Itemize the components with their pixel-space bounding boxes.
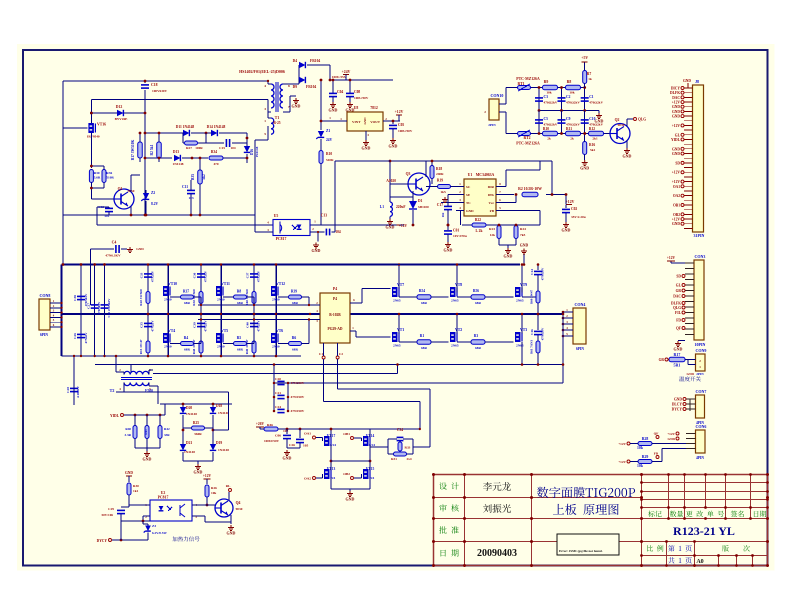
- svg-text:C40: C40: [246, 322, 250, 328]
- svg-text:R28 3W560: R28 3W560: [139, 289, 143, 306]
- svg-text:Z3: Z3: [152, 524, 156, 528]
- svg-text:100R: 100R: [195, 146, 203, 150]
- svg-text:GND: GND: [674, 398, 682, 402]
- svg-text:GND: GND: [312, 248, 321, 253]
- svg-text:+12V: +12V: [399, 224, 408, 228]
- svg-text:2N65: 2N65: [451, 344, 459, 348]
- svg-text:1N4148: 1N4148: [173, 162, 184, 166]
- svg-text:4PIN: 4PIN: [696, 456, 704, 460]
- svg-text:3: 3: [264, 107, 266, 111]
- svg-text:QF: QF: [676, 327, 682, 331]
- svg-text:2N65: 2N65: [451, 299, 459, 303]
- svg-text:SD: SD: [676, 275, 681, 279]
- svg-text:OA1: OA1: [304, 432, 311, 436]
- svg-text:C2: C2: [566, 95, 571, 99]
- svg-text:104: 104: [335, 230, 341, 234]
- svg-text:R34: R34: [211, 150, 217, 154]
- svg-text:C30: C30: [73, 295, 77, 301]
- svg-text:RL: RL: [226, 484, 231, 488]
- svg-text:1N4148: 1N4148: [186, 412, 197, 416]
- svg-text:+12V: +12V: [395, 110, 404, 114]
- svg-text:68R: 68R: [475, 346, 481, 350]
- svg-text:47N2kV: 47N2kV: [204, 270, 208, 282]
- svg-text:C5: C5: [544, 117, 549, 121]
- svg-text:10k: 10k: [637, 464, 644, 468]
- svg-text:47N250V: 47N250V: [291, 395, 305, 399]
- svg-text:510R: 510R: [106, 176, 114, 180]
- svg-text:C39: C39: [193, 322, 197, 328]
- svg-text:C28: C28: [66, 387, 70, 393]
- svg-text:68R: 68R: [184, 348, 190, 352]
- svg-text:470N63V: 470N63V: [97, 301, 101, 314]
- svg-text:510R: 510R: [326, 158, 334, 162]
- svg-text:GND: GND: [667, 437, 675, 441]
- svg-text:2: 2: [484, 110, 486, 114]
- svg-text:R41: R41: [144, 429, 148, 435]
- svg-text:7k5: 7k5: [520, 233, 526, 237]
- svg-text:FB: FB: [490, 209, 495, 213]
- svg-text:CON3: CON3: [695, 254, 706, 259]
- svg-text:VT8: VT8: [455, 283, 462, 287]
- svg-text:R27: R27: [186, 146, 192, 150]
- svg-text:2N65: 2N65: [393, 299, 401, 303]
- svg-text:R18: R18: [436, 167, 442, 171]
- svg-text:C9: C9: [566, 117, 571, 121]
- svg-text:R8: R8: [237, 290, 242, 294]
- svg-text:C37: C37: [246, 272, 250, 278]
- svg-text:+12V: +12V: [618, 460, 626, 464]
- svg-text:240R: 240R: [436, 172, 444, 176]
- svg-text:YIDL: YIDL: [110, 414, 120, 418]
- svg-text:470: 470: [213, 162, 218, 166]
- svg-text:SE: SE: [466, 193, 471, 197]
- svg-text:DAC: DAC: [672, 96, 680, 100]
- svg-text:68R: 68R: [184, 301, 190, 305]
- svg-text:GND: GND: [672, 115, 680, 119]
- svg-text:Q1: Q1: [118, 187, 123, 191]
- svg-text:R12: R12: [589, 127, 595, 131]
- svg-text:QLG: QLG: [673, 306, 681, 310]
- svg-text:35V/2.20u: 35V/2.20u: [571, 215, 586, 219]
- svg-text:+12V: +12V: [672, 101, 681, 105]
- svg-text:6PIN: 6PIN: [40, 333, 48, 337]
- svg-text:2N60: 2N60: [217, 298, 225, 302]
- svg-text:PTC-MZ126A: PTC-MZ126A: [516, 77, 540, 81]
- svg-text:R54: R54: [419, 289, 425, 293]
- svg-text:47N2kV: 47N2kV: [204, 320, 208, 332]
- svg-text:J8: J8: [695, 79, 699, 84]
- svg-text:U2: U2: [161, 491, 166, 495]
- svg-text:GND: GND: [329, 108, 338, 113]
- svg-text:105: 105: [303, 444, 309, 448]
- svg-text:5k1: 5k1: [590, 148, 596, 152]
- svg-text:GND: GND: [136, 247, 144, 251]
- svg-text:C15: C15: [219, 146, 225, 150]
- svg-text:+12V: +12V: [672, 180, 681, 184]
- svg-text:Z2: Z2: [151, 191, 155, 195]
- svg-text:2k: 2k: [547, 137, 551, 141]
- svg-text:GND: GND: [520, 244, 529, 248]
- svg-text:R6: R6: [292, 336, 297, 340]
- svg-text:102: 102: [441, 212, 445, 217]
- svg-text:T2: T2: [110, 388, 115, 393]
- svg-text:R5: R5: [237, 336, 242, 340]
- svg-text:DYCY: DYCY: [97, 539, 108, 543]
- svg-text:OA1: OA1: [673, 185, 680, 189]
- svg-text:R42: R42: [164, 427, 170, 431]
- svg-text:8: 8: [288, 84, 290, 88]
- svg-text:GND: GND: [672, 110, 680, 114]
- svg-text:D14 1N4148: D14 1N4148: [207, 125, 226, 129]
- svg-text:R7: R7: [587, 72, 592, 76]
- svg-text:68R: 68R: [292, 348, 298, 352]
- svg-text:2N60: 2N60: [217, 345, 225, 349]
- svg-text:470Ω2kV: 470Ω2kV: [544, 101, 558, 105]
- svg-text:C34: C34: [397, 428, 403, 432]
- svg-text:C33: C33: [140, 272, 144, 278]
- svg-text:R36: R36: [106, 171, 112, 175]
- svg-text:A102KV: A102KV: [76, 385, 80, 398]
- svg-text:VT9: VT9: [520, 283, 527, 287]
- svg-text:R35: R35: [191, 174, 195, 180]
- svg-text:D9: D9: [293, 85, 298, 89]
- svg-text:2N60: 2N60: [272, 298, 280, 302]
- svg-text:GND: GND: [362, 146, 371, 151]
- svg-text:BYV26E: BYV26E: [115, 117, 129, 121]
- svg-text:R16: R16: [589, 143, 595, 147]
- svg-text:C3: C3: [544, 95, 549, 99]
- svg-text:GND: GND: [292, 104, 301, 109]
- svg-text:47N2kV: 47N2kV: [257, 320, 261, 332]
- svg-text:GND: GND: [504, 254, 513, 259]
- svg-text:+12V: +12V: [618, 442, 626, 446]
- svg-text:47N250V: 47N250V: [291, 381, 305, 385]
- svg-text:C2: C2: [339, 352, 343, 356]
- svg-text:U5: U5: [274, 214, 279, 218]
- svg-text:DLFK: DLFK: [671, 302, 681, 306]
- svg-text:VINT: VINT: [352, 120, 361, 124]
- svg-text:OB2: OB2: [343, 472, 350, 476]
- svg-text:47N250V: 47N250V: [291, 409, 305, 413]
- svg-text:C02: C02: [571, 207, 577, 211]
- svg-text:10PIN: 10PIN: [695, 342, 706, 347]
- svg-text:2N60: 2N60: [164, 345, 172, 349]
- svg-text:C24: C24: [275, 405, 281, 409]
- svg-text:10k: 10k: [211, 491, 216, 495]
- svg-text:VT11: VT11: [221, 282, 230, 286]
- svg-text:D11 1N4148: D11 1N4148: [176, 125, 195, 129]
- svg-text:C04: C04: [337, 90, 343, 94]
- svg-text:GND: GND: [143, 457, 152, 462]
- svg-text:CON9: CON9: [696, 348, 707, 353]
- svg-text:C06: C06: [275, 434, 281, 438]
- svg-text:GND: GND: [683, 79, 691, 83]
- svg-text:CON4: CON4: [575, 302, 586, 307]
- svg-text:PTC-MZ126A: PTC-MZ126A: [516, 142, 540, 146]
- svg-text:R30: R30: [94, 171, 100, 175]
- svg-text:VT7: VT7: [397, 283, 404, 287]
- svg-text:GND: GND: [674, 347, 683, 352]
- svg-text:R2 5k1: R2 5k1: [150, 144, 154, 155]
- svg-text:R26: R26: [211, 486, 217, 490]
- svg-text:DICY: DICY: [671, 87, 681, 91]
- svg-text:68R: 68R: [421, 346, 427, 350]
- svg-text:R9: R9: [544, 80, 549, 84]
- svg-text:1k5: 1k5: [440, 190, 446, 194]
- svg-text:VT2: VT2: [455, 328, 462, 332]
- svg-text:GND: GND: [346, 497, 355, 502]
- svg-text:GL: GL: [676, 284, 682, 288]
- svg-text:CON7: CON7: [696, 389, 707, 394]
- svg-text:47N630V: 47N630V: [541, 267, 545, 280]
- svg-text:GND: GND: [672, 152, 680, 156]
- svg-text:DIR: DIR: [488, 185, 495, 189]
- svg-text:Q4: Q4: [236, 501, 241, 505]
- svg-text:47N2kV: 47N2kV: [151, 270, 155, 282]
- svg-text:Z1: Z1: [326, 129, 330, 133]
- svg-text:PC817: PC817: [158, 496, 169, 500]
- svg-text:C08: C08: [354, 90, 360, 94]
- svg-text:GND: GND: [125, 471, 133, 475]
- svg-text:A1020: A1020: [386, 179, 396, 183]
- svg-text:R10: R10: [543, 127, 549, 131]
- svg-text:D21: D21: [186, 441, 192, 445]
- svg-text:+24V: +24V: [342, 70, 351, 74]
- svg-text:6PIN: 6PIN: [576, 347, 584, 351]
- svg-text:HS1402/F01(EEL-25)D006: HS1402/F01(EEL-25)D006: [239, 69, 285, 74]
- svg-text:68R: 68R: [475, 301, 481, 305]
- svg-text:+12V: +12V: [672, 171, 681, 175]
- svg-text:C4: C4: [112, 241, 117, 245]
- svg-text:L 2k: L 2k: [476, 229, 483, 233]
- svg-text:RT2: RT2: [523, 136, 530, 140]
- svg-text:QLG: QLG: [638, 118, 646, 122]
- svg-text:R10: R10: [326, 152, 332, 156]
- svg-text:C16: C16: [530, 329, 534, 335]
- svg-text:IN4148: IN4148: [255, 146, 259, 157]
- svg-text:+5V: +5V: [581, 56, 588, 60]
- svg-text:5: 5: [264, 132, 266, 136]
- svg-text:+12V: +12V: [566, 200, 575, 204]
- svg-text:GND: GND: [672, 222, 680, 226]
- svg-text:560R: 560R: [194, 432, 202, 436]
- svg-text:R30: R30: [133, 484, 139, 488]
- svg-text:VT16: VT16: [97, 123, 106, 127]
- svg-text:DLFK: DLFK: [670, 91, 680, 95]
- svg-text:C01: C01: [453, 229, 459, 233]
- svg-text:GND: GND: [444, 248, 453, 253]
- svg-text:100UF50V: 100UF50V: [264, 439, 280, 443]
- svg-text:CON6: CON6: [696, 424, 707, 429]
- svg-text:A0: A0: [696, 559, 703, 565]
- svg-text:1N4148: 1N4148: [218, 411, 229, 415]
- svg-text:C36: C36: [193, 272, 197, 278]
- svg-text:C18: C18: [151, 83, 158, 87]
- svg-text:IRF9540: IRF9540: [87, 135, 100, 139]
- svg-text:3.3R: 3.3R: [124, 433, 131, 437]
- svg-text:VOUT: VOUT: [370, 120, 380, 124]
- svg-text:50V/106: 50V/106: [101, 513, 113, 517]
- svg-text:33R: 33R: [164, 433, 170, 437]
- svg-text:VT1: VT1: [397, 328, 404, 332]
- svg-text:VT6: VT6: [276, 329, 283, 333]
- svg-text:+12V: +12V: [667, 432, 675, 436]
- svg-text:VT5: VT5: [221, 329, 228, 333]
- svg-text:CON8: CON8: [40, 293, 51, 298]
- svg-text:SB1100: SB1100: [418, 205, 429, 209]
- svg-text:R24: R24: [520, 227, 526, 231]
- svg-text:1k: 1k: [588, 77, 592, 81]
- svg-text:GND: GND: [580, 166, 589, 171]
- svg-text:31PIN: 31PIN: [694, 233, 705, 238]
- svg-text:P4: P4: [333, 287, 337, 291]
- svg-text:C27: C27: [87, 303, 91, 309]
- svg-text:+12V: +12V: [672, 124, 681, 128]
- svg-text:47N2kV: 47N2kV: [257, 270, 261, 282]
- svg-text:GND: GND: [466, 209, 474, 213]
- svg-text:Vcc: Vcc: [489, 201, 495, 205]
- svg-text:PG29-AD: PG29-AD: [328, 327, 343, 331]
- svg-text:2PIN: 2PIN: [696, 372, 704, 376]
- svg-text:47N6.3KV: 47N6.3KV: [105, 254, 121, 258]
- svg-text:GND: GND: [672, 105, 680, 109]
- svg-text:2k1: 2k1: [592, 137, 598, 141]
- svg-text:100U/35V: 100U/35V: [332, 75, 347, 79]
- svg-text:GR: GR: [659, 358, 665, 362]
- svg-text:GND: GND: [227, 531, 236, 536]
- svg-text:6.2V/0.5W: 6.2V/0.5W: [152, 531, 168, 535]
- svg-text:D20: D20: [186, 406, 192, 410]
- svg-text:5k2: 5k2: [202, 174, 206, 180]
- svg-text:D1: D1: [418, 199, 423, 203]
- svg-text:C05: C05: [398, 123, 404, 127]
- svg-text:QF: QF: [654, 432, 659, 436]
- svg-text:DLCY: DLCY: [672, 403, 683, 407]
- svg-text:9030: 9030: [236, 507, 243, 511]
- svg-text:2N65: 2N65: [516, 344, 524, 348]
- svg-text:VT4: VT4: [168, 329, 175, 333]
- svg-text:R4: R4: [184, 336, 189, 340]
- svg-text:GND: GND: [686, 372, 694, 376]
- svg-text:68R: 68R: [237, 348, 243, 352]
- svg-text:5.6R: 5.6R: [94, 176, 101, 180]
- svg-text:GND: GND: [389, 144, 398, 149]
- svg-text:DAC: DAC: [673, 295, 681, 299]
- svg-text:VT10: VT10: [168, 282, 177, 286]
- svg-text:10k: 10k: [637, 446, 644, 450]
- svg-text:MC34063A: MC34063A: [476, 173, 495, 177]
- svg-text:VT12: VT12: [276, 282, 285, 286]
- svg-text:CON10: CON10: [491, 93, 504, 98]
- svg-text:2k: 2k: [570, 137, 574, 141]
- svg-text:68R: 68R: [237, 301, 243, 305]
- svg-text:R17: R17: [674, 352, 681, 357]
- svg-text:R17 3W510K: R17 3W510K: [131, 139, 135, 160]
- svg-text:DYCY: DYCY: [672, 408, 683, 412]
- svg-text:GND: GND: [595, 119, 604, 124]
- svg-text:FD: FD: [676, 319, 681, 323]
- svg-text:1: 1: [264, 119, 266, 123]
- svg-text:GND: GND: [672, 147, 680, 151]
- svg-text:R56: R56: [473, 289, 479, 293]
- svg-text:IPK: IPK: [488, 193, 494, 197]
- svg-text:B-25: B-25: [273, 121, 280, 125]
- svg-text:D12: D12: [116, 105, 123, 109]
- svg-text:Error: JSMC.jpg file not found: Error: JSMC.jpg file not found.: [559, 549, 603, 553]
- svg-text:YIDL: YIDL: [671, 138, 681, 142]
- svg-text:GL: GL: [675, 133, 681, 137]
- svg-text:OA2: OA2: [673, 194, 680, 198]
- svg-text:R61 7AN1: R61 7AN1: [530, 340, 534, 354]
- svg-text:470Ω2kV: 470Ω2kV: [589, 101, 603, 105]
- svg-text:R60 3W47: R60 3W47: [530, 289, 534, 304]
- svg-text:2N65: 2N65: [516, 299, 524, 303]
- svg-text:Q2: Q2: [615, 118, 620, 122]
- svg-text:R28: R28: [642, 437, 649, 441]
- svg-text:R1: R1: [420, 334, 425, 338]
- svg-text:1N4148: 1N4148: [184, 450, 195, 454]
- svg-text:FIL: FIL: [675, 311, 682, 315]
- svg-text:R33: R33: [405, 446, 411, 450]
- svg-text:C1: C1: [589, 95, 594, 99]
- svg-text:GND: GND: [562, 228, 571, 233]
- svg-text:T1: T1: [275, 116, 280, 120]
- svg-text:SD: SD: [675, 161, 680, 165]
- svg-text:2x4: 2x4: [406, 457, 411, 461]
- svg-text:GND: GND: [363, 117, 367, 125]
- svg-text:GND: GND: [623, 154, 632, 159]
- svg-text:100U/50V: 100U/50V: [398, 129, 413, 133]
- svg-text:R46: R46: [267, 423, 273, 427]
- svg-text:R25: R25: [193, 421, 199, 425]
- svg-text:20090403: 20090403: [477, 548, 517, 559]
- svg-text:U1: U1: [468, 173, 473, 177]
- svg-text:FR104: FR104: [310, 59, 320, 63]
- svg-text:D16: D16: [250, 149, 254, 155]
- svg-text:FD: FD: [654, 452, 659, 456]
- svg-text:C17: C17: [437, 203, 443, 207]
- svg-text:P4: P4: [333, 297, 337, 301]
- svg-text:2N65: 2N65: [393, 344, 401, 348]
- svg-text:C25 470N63V: C25 470N63V: [107, 298, 111, 318]
- svg-text:C20: C20: [275, 377, 281, 381]
- svg-text:+12V: +12V: [672, 218, 681, 222]
- svg-text:R37: R37: [183, 290, 189, 294]
- svg-text:GND: GND: [283, 456, 292, 461]
- svg-text:C14: C14: [530, 269, 534, 275]
- svg-text:OB1: OB1: [673, 204, 680, 208]
- svg-text:47N630V: 47N630V: [541, 327, 545, 340]
- svg-text:104: 104: [230, 146, 235, 150]
- svg-text:C21: C21: [275, 391, 281, 395]
- svg-text:47N63V: 47N63V: [84, 332, 88, 344]
- svg-text:VT3: VT3: [520, 328, 527, 332]
- svg-text:R2 10.5R-10W: R2 10.5R-10W: [518, 187, 542, 191]
- svg-text:4: 4: [264, 84, 266, 88]
- svg-text:R22: R22: [475, 218, 481, 222]
- svg-text:U8: U8: [354, 106, 359, 110]
- svg-text:R3: R3: [474, 334, 479, 338]
- svg-text:SC: SC: [466, 185, 471, 189]
- svg-text:D18: D18: [216, 404, 222, 408]
- svg-text:D19: D19: [216, 441, 222, 445]
- svg-text:12k: 12k: [490, 233, 495, 237]
- svg-text:GND: GND: [194, 470, 203, 475]
- svg-text:GR: GR: [676, 289, 682, 293]
- svg-text:470Ω2kV: 470Ω2kV: [566, 123, 580, 127]
- svg-text:68R: 68R: [421, 301, 427, 305]
- svg-text:R23: R23: [489, 227, 495, 231]
